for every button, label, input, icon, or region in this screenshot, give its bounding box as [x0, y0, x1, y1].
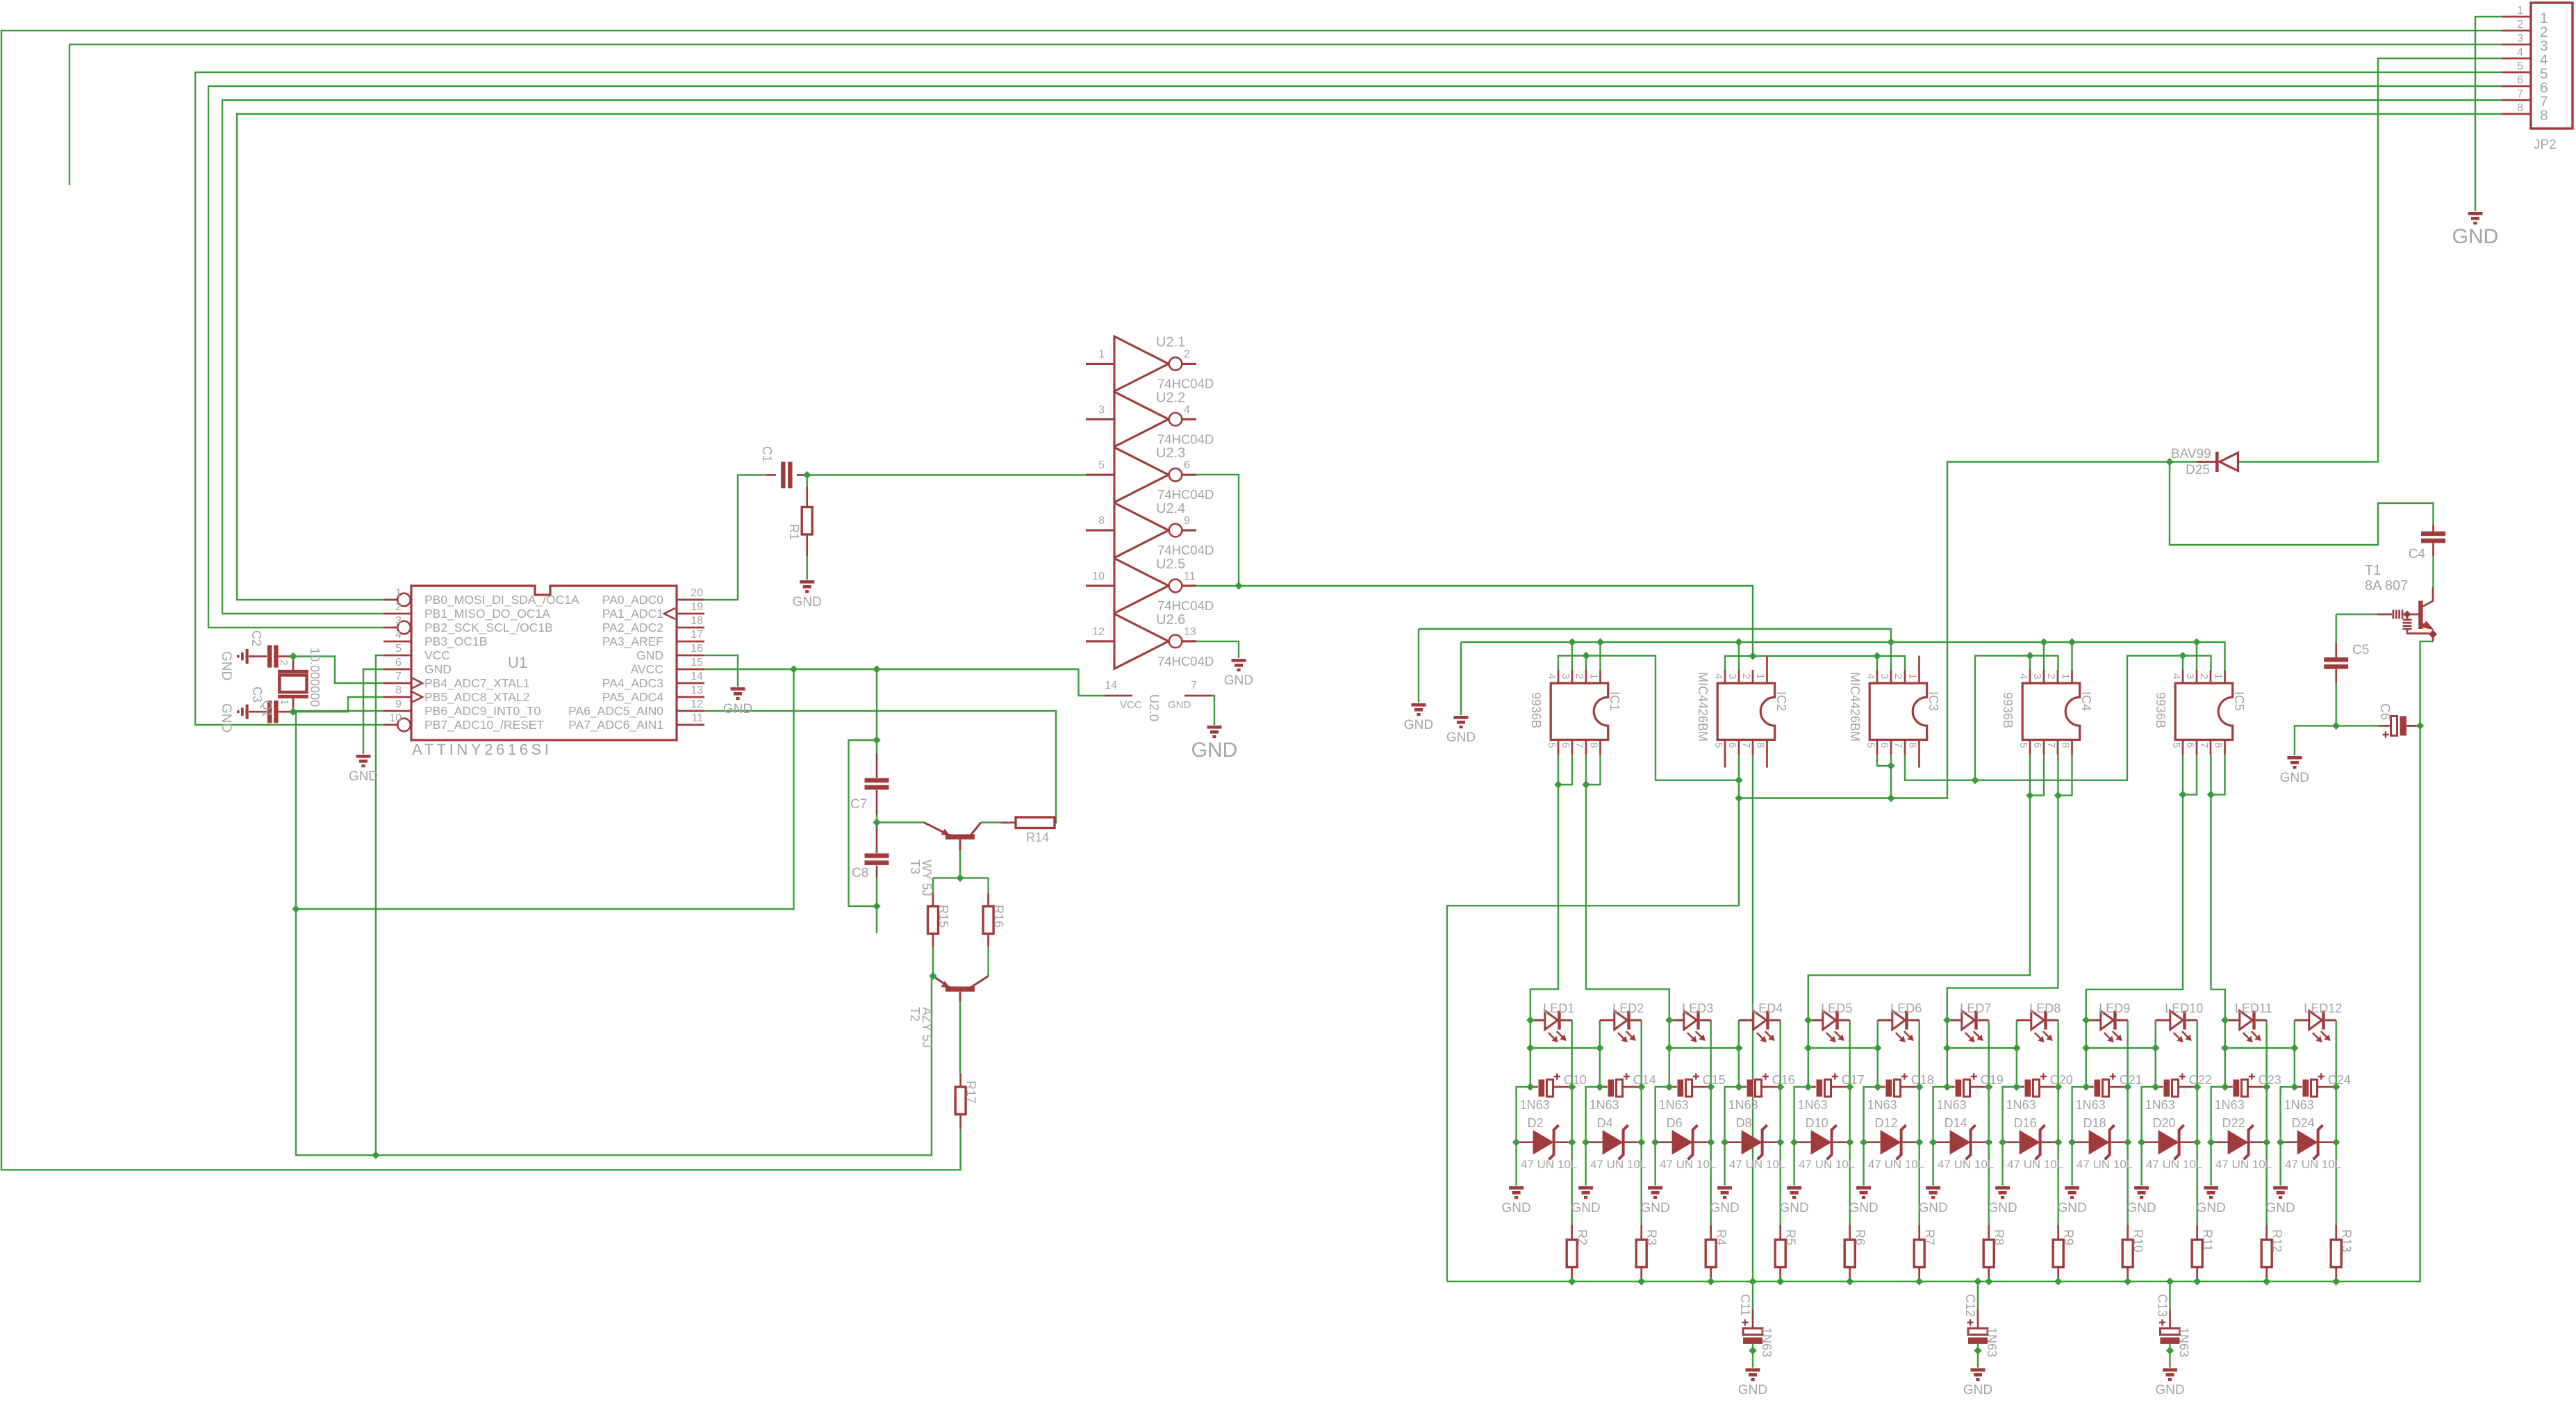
svg-text:LED9: LED9: [2099, 1001, 2130, 1015]
wire bottom common rail: [1447, 726, 2420, 1281]
svg-text:7: 7: [1740, 742, 1752, 748]
svg-text:C21: C21: [2120, 1073, 2142, 1087]
junction (C11): [1749, 1347, 1756, 1354]
svg-text:D24: D24: [2292, 1116, 2315, 1130]
wire U1 pin6 GND: [363, 669, 383, 754]
ic IC1 9936B: [1551, 683, 1608, 740]
svg-text:3: 3: [2031, 673, 2043, 679]
led LED6: [1878, 1011, 1919, 1039]
svg-text:LED6: LED6: [1890, 1001, 1922, 1015]
svg-text:4: 4: [1546, 673, 1558, 679]
resistor R14: [1001, 821, 1016, 824]
wire U1 pin12 to R14: [704, 711, 1056, 823]
svg-text:IC2: IC2: [1774, 691, 1788, 711]
svg-text:R2: R2: [1576, 1229, 1590, 1245]
svg-text:D12: D12: [1875, 1116, 1898, 1130]
ground (cell 4): [1717, 1186, 1732, 1199]
svg-text:47 UN 10L: 47 UN 10L: [2146, 1158, 2202, 1171]
pin 2 IC1: [1585, 670, 1587, 683]
ground (C13): [2163, 1368, 2177, 1381]
pin 2 IC2: [1752, 670, 1754, 683]
svg-text:D8: D8: [1736, 1116, 1752, 1130]
resistor R9 body: [2053, 1240, 2063, 1268]
svg-text:1N63: 1N63: [1659, 1098, 1689, 1112]
pin 1 IC4: [2071, 670, 2073, 683]
wire T3 base down: [959, 851, 961, 878]
svg-text:3: 3: [1560, 673, 1571, 679]
ground (cell 8): [1995, 1186, 2010, 1199]
svg-text:10: 10: [389, 712, 402, 724]
resistor R15 body: [928, 906, 939, 934]
svg-text:U2.4: U2.4: [1156, 501, 1185, 516]
wire LED7-LED8 anode loop: [1947, 1020, 2017, 1048]
pin 12 U1 (PA6_ADC5_AIN0): [677, 710, 704, 712]
wire T1 base to C5: [2335, 614, 2336, 643]
svg-text:C11: C11: [1738, 1294, 1752, 1316]
ground (cell 9): [2065, 1186, 2079, 1199]
wire R1 top lead: [806, 475, 807, 487]
svg-text:LED7: LED7: [1960, 1001, 1991, 1015]
svg-text:13: 13: [691, 685, 703, 696]
capacitor C24 (polarized): [2295, 1086, 2302, 1088]
diode D25 BAV99: [2197, 461, 2216, 463]
svg-text:8: 8: [395, 685, 402, 696]
wire ground bus upper: [1419, 629, 1891, 642]
svg-text:C8: C8: [852, 866, 868, 880]
svg-text:5: 5: [1098, 459, 1105, 471]
svg-text:PA4_ADC3: PA4_ADC3: [602, 676, 663, 691]
svg-text:R5: R5: [1784, 1229, 1798, 1245]
capacitor C17 (polarized): [1808, 1086, 1816, 1088]
led LED5: [1808, 1011, 1850, 1039]
svg-text:6: 6: [1560, 742, 1571, 748]
resistor R11: [2196, 1225, 2198, 1240]
svg-text:1N63: 1N63: [1728, 1098, 1758, 1112]
svg-text:GND: GND: [1710, 1201, 1739, 1215]
svg-text:C6: C6: [2377, 703, 2392, 720]
wire JP2 pin5 to U1 pin10: [195, 72, 2502, 725]
pin 4 IC5: [2182, 670, 2184, 683]
svg-text:16: 16: [691, 643, 703, 655]
svg-text:4: 4: [395, 629, 402, 641]
wire T1 emitter down: [2420, 641, 2433, 726]
resistor R15: [932, 893, 934, 906]
svg-text:GND: GND: [1738, 1383, 1767, 1398]
wire C8 bottom lead and stub: [876, 878, 877, 933]
resistor R17: [959, 1074, 961, 1087]
pin 9 U1 (PB6_ADC9_INT0_T0): [383, 710, 411, 712]
ground (cell 7): [1926, 1186, 1940, 1199]
svg-text:IC3: IC3: [1926, 691, 1940, 711]
pin 7 IC2: [1752, 740, 1754, 755]
svg-text:7: 7: [395, 671, 402, 682]
capacitor C2: [249, 655, 267, 657]
wire C11 tap: [1752, 1281, 1753, 1320]
svg-text:LED3: LED3: [1682, 1001, 1713, 1015]
svg-text:1: 1: [2213, 673, 2224, 679]
svg-text:3: 3: [2517, 33, 2523, 44]
pin 13 U1 (PA5_ADC4): [677, 696, 704, 698]
svg-text:47 UN 10L: 47 UN 10L: [1590, 1158, 1646, 1171]
svg-text:R17: R17: [964, 1081, 978, 1104]
wire IC4 pin3 riser: [2043, 642, 2045, 670]
svg-text:2: 2: [2045, 673, 2057, 679]
resistor R4: [1710, 1225, 1712, 1240]
resistor R11 body: [2192, 1240, 2202, 1268]
capacitor C19 (polarized): [1947, 1086, 1955, 1088]
wire C4 to T1 collector: [2432, 557, 2434, 587]
wire U1 AVCC to U2 VCC pin: [704, 669, 1105, 696]
wire cell 7 cathode rail: [1988, 1020, 1989, 1225]
svg-text:GND: GND: [349, 769, 378, 784]
ground (cell 1): [1509, 1186, 1524, 1199]
led LED11: [2225, 1011, 2267, 1039]
ground (cell 11): [2204, 1186, 2218, 1199]
capacitor C18 (polarized): [1878, 1086, 1885, 1088]
svg-text:GND: GND: [1779, 1201, 1808, 1215]
svg-text:9936B: 9936B: [2001, 692, 2015, 728]
pin 3 IC2: [1738, 670, 1740, 683]
svg-text:PA5_ADC4: PA5_ADC4: [602, 690, 663, 705]
svg-text:1N63: 1N63: [1520, 1098, 1550, 1112]
svg-text:D4: D4: [1597, 1116, 1613, 1130]
svg-text:GND: GND: [1224, 673, 1253, 688]
pin 15 U1 (AVCC): [677, 669, 704, 671]
transistor T2 AZY 5J: [933, 976, 989, 1002]
capacitor C23 (polarized): [2225, 1086, 2233, 1088]
wire C6 right lead: [2406, 725, 2420, 726]
pin 7 U1 (PB4_ADC7_XTAL1): [383, 682, 411, 685]
svg-text:D2: D2: [1528, 1116, 1544, 1130]
svg-text:PA2_ADC2: PA2_ADC2: [602, 621, 663, 635]
svg-text:9936B: 9936B: [1529, 692, 1543, 728]
wire IC2 pin6 to bottom rail riser: [1447, 755, 1739, 1281]
svg-text:D25: D25: [2186, 463, 2210, 477]
wire cell 5 cathode rail: [1849, 1020, 1850, 1225]
wire U1 pin20 to C1: [383, 475, 766, 600]
svg-text:PB6_ADC9_INT0_T0: PB6_ADC9_INT0_T0: [424, 704, 541, 719]
wire C5 bottom: [2335, 683, 2336, 726]
pin 7 IC4: [2057, 740, 2059, 755]
resistor R12: [2265, 1225, 2268, 1240]
wire U2.5 output to IC2/IC3 inputs: [1196, 586, 1753, 656]
svg-text:20: 20: [691, 587, 703, 599]
svg-text:1N63: 1N63: [2006, 1098, 2036, 1112]
svg-text:7: 7: [2045, 742, 2057, 748]
svg-text:47 UN 10L: 47 UN 10L: [1521, 1158, 1577, 1171]
svg-text:1N63: 1N63: [2177, 1327, 2191, 1357]
svg-text:14: 14: [691, 671, 703, 682]
wire IC1 pin1 riser: [1599, 642, 1601, 670]
svg-text:MIC4426BM: MIC4426BM: [1848, 672, 1862, 742]
wire IC5 pin6 jog: [2183, 755, 2197, 794]
wire JP2 pin6 to U1 pin3: [208, 86, 2502, 628]
junctions (net dots): [2165, 458, 2173, 466]
wire U1 pin9 / VCC rail to T2 emitter: [296, 711, 932, 1155]
capacitor C14 (polarized): [1600, 1086, 1608, 1088]
diode D6: [1656, 1141, 1672, 1143]
svg-text:47 UN 10L: 47 UN 10L: [1799, 1158, 1855, 1171]
pin 8 IC2: [1766, 740, 1768, 768]
svg-text:U2.1: U2.1: [1156, 335, 1185, 350]
wire cell 4 anode rail: [1725, 1048, 1739, 1186]
svg-text:47 UN 10L: 47 UN 10L: [2007, 1158, 2063, 1171]
wire ground bus through IC pins 3/1: [1461, 642, 2225, 670]
svg-text:JP2: JP2: [2534, 138, 2557, 152]
wire D25 node to C4: [2170, 462, 2434, 546]
capacitor C7: [876, 754, 878, 778]
wire IC5 pin8 jog: [2211, 755, 2225, 794]
pin 5 IC3: [1876, 740, 1879, 755]
svg-text:GND: GND: [2155, 1383, 2184, 1398]
wire cell 11 cathode rail: [2265, 1020, 2267, 1225]
svg-text:AVCC: AVCC: [631, 662, 663, 676]
svg-text:LED11: LED11: [2235, 1001, 2272, 1015]
ground (U2.6 output): [1232, 659, 1246, 671]
wire cell 9 cathode rail: [2127, 1020, 2128, 1225]
wire IC5 pins5/6 to LED9: [2086, 755, 2183, 1020]
svg-text:19: 19: [691, 601, 703, 613]
wire IC5 pins7/8 to LED11: [2211, 755, 2225, 1020]
svg-text:R9: R9: [2062, 1229, 2076, 1245]
capacitor C5: [2335, 643, 2337, 657]
pin 1 U1 (PB0_MOSI_DI_SDA_/OC1A): [383, 599, 397, 601]
wire XTAL1 to U1 pin7: [293, 657, 383, 684]
wire IC1 pin2 riser: [1585, 656, 1587, 671]
svg-text:C19: C19: [1981, 1073, 2004, 1087]
svg-text:14: 14: [1105, 680, 1117, 691]
svg-text:11: 11: [691, 712, 703, 724]
svg-text:GND: GND: [2265, 1201, 2295, 1215]
svg-text:D10: D10: [1806, 1116, 1828, 1130]
resistor R2 body: [1567, 1240, 1577, 1268]
diode D4: [1586, 1141, 1603, 1143]
svg-text:LED5: LED5: [1821, 1001, 1852, 1015]
wire T3 collector to R14: [981, 821, 1001, 823]
wire JP2 pin3 stub: [69, 44, 2502, 185]
svg-text:4: 4: [2170, 673, 2182, 679]
svg-text:6: 6: [2184, 742, 2196, 748]
pin 8 IC5: [2224, 740, 2226, 755]
svg-text:7: 7: [2517, 88, 2523, 100]
ground (C11): [1746, 1368, 1760, 1381]
wire IC1 pins7/8 to LED3: [1586, 755, 1669, 1020]
pin 10 U1 (PB7_ADC10_/RESET): [383, 724, 397, 726]
svg-text:6: 6: [395, 657, 402, 669]
pin 14 U1 (PA4_ADC3): [677, 682, 704, 685]
svg-text:GND: GND: [2057, 1201, 2086, 1215]
led LED8: [2017, 1011, 2058, 1039]
svg-text:1N63: 1N63: [1867, 1098, 1897, 1112]
svg-text:C18: C18: [1911, 1073, 1934, 1087]
resistor R7 body: [1914, 1240, 1924, 1268]
svg-text:WY 5J: WY 5J: [920, 860, 934, 896]
svg-text:D22: D22: [2222, 1116, 2245, 1130]
svg-text:U2.0: U2.0: [1147, 694, 1162, 721]
led LED12: [2295, 1011, 2336, 1039]
svg-text:C2: C2: [249, 630, 263, 646]
pin 6 IC3: [1890, 740, 1892, 755]
svg-text:1N63: 1N63: [2215, 1098, 2245, 1112]
svg-text:2: 2: [1184, 349, 1190, 361]
svg-text:R16: R16: [992, 905, 1006, 928]
capacitor C4: [2432, 525, 2434, 532]
svg-text:D20: D20: [2153, 1116, 2176, 1130]
wire cell 9 anode rail: [2072, 1048, 2086, 1186]
wire IC1 pin8 jog: [1586, 755, 1601, 785]
pin 5 IC1: [1558, 740, 1560, 755]
svg-text:8: 8: [1588, 742, 1600, 748]
pin 1 IC2: [1766, 656, 1768, 684]
svg-text:1: 1: [2060, 673, 2072, 679]
svg-text:4: 4: [1184, 404, 1190, 416]
svg-text:C22: C22: [2189, 1073, 2212, 1087]
pin 3 IC1: [1571, 670, 1574, 683]
connector JP2: [2502, 3, 2573, 129]
ic IC5 9936B: [2175, 683, 2233, 740]
ground (driver area 2): [1454, 716, 1469, 728]
svg-text:R8: R8: [1992, 1229, 2006, 1245]
wire cell 2 anode rail: [1586, 1048, 1600, 1186]
wire cell 10 cathode rail: [2196, 1020, 2197, 1225]
svg-text:C17: C17: [1842, 1073, 1865, 1087]
svg-text:GND: GND: [636, 648, 663, 662]
capacitor C16 (polarized): [1739, 1086, 1747, 1088]
svg-text:7: 7: [1574, 742, 1585, 748]
power pins U2.0: [1105, 695, 1132, 697]
pin 5 IC2: [1724, 740, 1726, 768]
pin 18 U1 (PA2_ADC2): [677, 627, 704, 629]
capacitor C15 (polarized): [1669, 1086, 1677, 1088]
svg-text:7: 7: [1892, 742, 1904, 748]
wire T2 base to R17: [959, 1002, 961, 1074]
svg-text:D14: D14: [1945, 1116, 1967, 1130]
ground (JP2 pin1): [2468, 212, 2483, 224]
svg-text:PA0_ADC0: PA0_ADC0: [602, 593, 663, 607]
pin 6 IC5: [2196, 740, 2198, 755]
resistor R1: [806, 486, 808, 507]
svg-text:7: 7: [1191, 680, 1197, 691]
svg-text:AZY 5J: AZY 5J: [920, 1007, 934, 1048]
svg-text:R14: R14: [1026, 830, 1049, 844]
svg-text:BAV99: BAV99: [2171, 447, 2211, 461]
ground (driver area 1): [1412, 703, 1426, 716]
svg-text:6: 6: [2517, 74, 2523, 86]
svg-text:PB7_ADC10_/RESET: PB7_ADC10_/RESET: [424, 718, 544, 732]
svg-text:GND: GND: [1640, 1201, 1669, 1215]
resistor R10: [2127, 1225, 2129, 1240]
inverter U2.1 74HC04D: [1086, 336, 1196, 391]
wire IC1 pin6 jog: [1558, 755, 1572, 785]
resistor R10 body: [2122, 1240, 2133, 1268]
svg-text:GND: GND: [219, 703, 233, 732]
ground (C3) rotated: [237, 705, 249, 719]
wire C7 top lead: [876, 740, 877, 754]
svg-text:1: 1: [1098, 349, 1105, 361]
resistor R16 body: [983, 906, 993, 934]
svg-text:9: 9: [1184, 515, 1190, 527]
capacitor C21 (polarized): [2086, 1086, 2094, 1088]
svg-text:7: 7: [2198, 742, 2210, 748]
wire IC3 pin3 riser: [1890, 642, 1892, 670]
led LED3: [1669, 1011, 1711, 1039]
svg-text:R3: R3: [1645, 1229, 1659, 1245]
wire cell 1 cathode rail: [1571, 1020, 1572, 1225]
svg-text:2: 2: [1574, 673, 1585, 679]
resistor R17 body: [955, 1087, 966, 1115]
svg-text:LED4: LED4: [1751, 1001, 1783, 1015]
ground (cell 6): [1856, 1186, 1871, 1199]
wire cell 3 anode rail: [1656, 1048, 1669, 1186]
resistor R2: [1571, 1225, 1573, 1240]
svg-text:PB1_MISO_DO_OC1A: PB1_MISO_DO_OC1A: [424, 607, 550, 621]
pin 8 IC1: [1599, 740, 1601, 755]
svg-text:8: 8: [1755, 742, 1767, 748]
led LED1: [1530, 1011, 1572, 1039]
wire GND stub: [1418, 629, 1419, 703]
svg-text:15: 15: [691, 657, 703, 669]
wire U2 GND pin: [1212, 696, 1214, 725]
svg-text:PB0_MOSI_DI_SDA_/OC1A: PB0_MOSI_DI_SDA_/OC1A: [424, 593, 579, 607]
wire IC2-IC3 input rail: [1725, 656, 1905, 670]
svg-text:GND: GND: [1918, 1201, 1947, 1215]
resistor R9: [2057, 1225, 2059, 1240]
resistor R13 body: [2331, 1240, 2341, 1268]
led LED7: [1947, 1011, 1989, 1039]
svg-text:74HC04D: 74HC04D: [1157, 487, 1214, 502]
svg-text:4: 4: [1865, 673, 1876, 679]
wire IC3 pin4 riser: [1876, 656, 1878, 670]
pin 3 IC5: [2196, 670, 2198, 683]
svg-text:C10: C10: [1564, 1073, 1587, 1087]
pin 20 U1 (PA0_ADC0): [677, 599, 704, 601]
svg-text:IC5: IC5: [2232, 691, 2246, 711]
ground (cell 10): [2134, 1186, 2149, 1199]
capacitor C1: [766, 474, 776, 476]
svg-text:5: 5: [1712, 742, 1724, 748]
svg-text:47 UN 10L: 47 UN 10L: [2215, 1158, 2272, 1171]
wire IC1 pin3 riser: [1571, 642, 1573, 670]
pin 8 IC4: [2071, 740, 2073, 755]
wire IC2 pin3 riser: [1738, 642, 1740, 670]
wire C13 to ground: [2169, 1344, 2170, 1368]
svg-text:5: 5: [2017, 742, 2029, 748]
wire IC5 pin3 riser: [2196, 642, 2197, 670]
pin 8 U1 (PB5_ADC8_XTAL2): [383, 696, 411, 698]
resistor R13: [2335, 1225, 2337, 1240]
svg-text:74HC04D: 74HC04D: [1157, 598, 1214, 613]
svg-text:74HC04D: 74HC04D: [1157, 432, 1214, 446]
svg-text:8: 8: [1098, 515, 1105, 527]
svg-text:74HC04D: 74HC04D: [1157, 654, 1214, 669]
led LED4: [1739, 1011, 1781, 1039]
svg-text:17: 17: [691, 629, 703, 641]
wire cell 4 cathode rail: [1779, 1020, 1781, 1225]
svg-text:8: 8: [2517, 102, 2523, 114]
svg-text:LED12: LED12: [2304, 1001, 2342, 1015]
wire IC4 pin8 jog: [2058, 755, 2072, 796]
svg-text:GND: GND: [1571, 1201, 1600, 1215]
wire IC1 input rail: [1558, 656, 1739, 780]
svg-text:C15: C15: [1703, 1073, 1726, 1087]
capacitor C6 (polarized): [2379, 725, 2390, 727]
wire JP2 pin1 to GND: [2475, 17, 2502, 211]
svg-text:D16: D16: [2014, 1116, 2037, 1130]
wire cell 12 anode rail: [2281, 1048, 2295, 1186]
svg-text:U2.2: U2.2: [1156, 390, 1185, 405]
wire D25 cathode net to driver bus: [1739, 462, 2218, 798]
resistor R7: [1918, 1225, 1920, 1240]
